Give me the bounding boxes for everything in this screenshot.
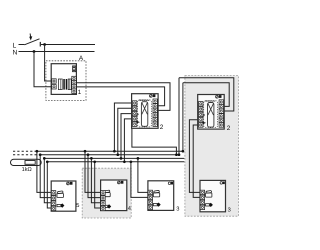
svg-text:2: 2	[227, 125, 231, 132]
wire bus line 2	[40, 154, 179, 156]
wire bus 4 drop to door station 5 t4	[47, 162, 52, 208]
intercom module 2 (right)	[198, 95, 225, 130]
svg-text:2: 2	[160, 124, 164, 131]
wire L lead-in	[19, 44, 25, 46]
wire right module 2 L5 to right station 3 t2	[193, 125, 201, 197]
wire feed to right module 2 terminal R2	[183, 83, 229, 107]
module 2 (left) terminals	[132, 99, 157, 126]
svg-text:1: 1	[78, 89, 82, 96]
wire L line	[41, 44, 95, 46]
power supply unit 1	[51, 64, 76, 95]
svg-text:5: 5	[76, 203, 79, 209]
wire bus 1 riser to module 2 L1	[114, 103, 132, 151]
svg-text:1kΩ: 1kΩ	[22, 166, 32, 173]
wire supply a to module 2 right terminal 3	[76, 83, 170, 111]
svg-text:A: A	[79, 55, 84, 62]
wire riser from bus line 2	[178, 78, 180, 155]
intercom module 2 (left)	[132, 94, 159, 129]
terminating resistor loop	[11, 159, 42, 165]
wire bus 4 riser to module 2 L4	[124, 119, 132, 162]
wire supply b to module 2 right terminal 2	[76, 87, 164, 106]
svg-text:4: 4	[128, 206, 131, 212]
station indoor station 3 center	[148, 181, 174, 211]
wire bus line 4	[47, 161, 184, 163]
svg-text:3: 3	[176, 206, 179, 212]
svg-text:3: 3	[228, 207, 231, 213]
wire N drop to power supply	[34, 52, 52, 87]
svg-text:L: L	[13, 42, 17, 49]
station indoor station 3 right terminals	[200, 190, 204, 209]
wire bus line 1	[37, 150, 183, 152]
wire module 2 return to bus line 2	[132, 128, 177, 154]
station indoor station 4	[101, 180, 127, 211]
wire bus 3 drop to station 3 t1	[138, 158, 149, 192]
wire bus 3 riser to module 2 L3	[121, 114, 133, 159]
junction on L	[43, 43, 46, 46]
wire bus 4 drop to station 4 t4	[95, 162, 102, 208]
wire bus line 3	[44, 157, 184, 159]
bus junction dots	[36, 150, 185, 163]
wire N line	[19, 51, 95, 53]
module 2 (right) terminals	[199, 100, 224, 127]
wire bus 4 drop to station 3 t2	[131, 162, 149, 198]
wire riser from bus line 1	[182, 83, 184, 152]
wire bus 2 drop to door station 5 t2	[40, 155, 52, 198]
switch S on line L	[24, 34, 40, 47]
svg-text:N: N	[13, 49, 18, 56]
wire feed to right module 2 terminal R3	[179, 78, 234, 111]
power supply terminals	[52, 76, 76, 93]
wire bus 1 drop to door station 5 t1	[37, 151, 52, 192]
wire right module 2 L4 to right station 3 t1	[189, 120, 201, 193]
station indoor station 4 terminals	[101, 191, 105, 211]
apartment zone 2 (dashed gray area around station 4)	[82, 168, 131, 218]
bus line 1 (dashed continuation)	[13, 150, 37, 152]
wire L drop to power supply	[45, 45, 52, 82]
apartment zone 1 (dashed gray area around modules 2 and 3 right)	[185, 76, 239, 217]
bus line 2 (dashed continuation)	[13, 154, 40, 156]
station door station 5	[51, 181, 76, 211]
wire bus 3 drop to station 4 t3	[91, 158, 101, 202]
station indoor station 3 center terminals	[148, 190, 152, 209]
wire bus 2 riser to module 2 L2	[118, 108, 133, 154]
station door station 5 terminals	[51, 191, 55, 211]
resistor R 1k	[25, 161, 35, 165]
station indoor station 3 right	[200, 180, 226, 211]
wire bus 1 drop to station 4 t1	[85, 151, 101, 192]
wire bus 2 drop to station 4 t2	[88, 155, 101, 198]
dashed enclosure A	[46, 61, 86, 101]
junction on N	[33, 50, 36, 53]
wire bus 3 drop to door station 5 t3	[44, 158, 52, 202]
